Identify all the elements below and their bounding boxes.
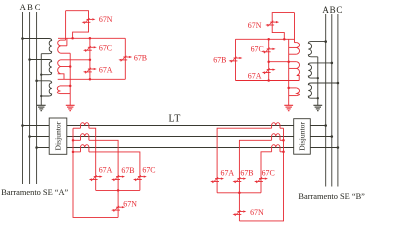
wire common rail (lower left) [73, 128, 118, 217]
wire CT primary common to ground (right) [317, 57, 319, 106]
junction dots upper-left group [69, 37, 91, 87]
junction dots lower-left group [72, 139, 120, 192]
relay 67B (upper left) [118, 56, 132, 62]
wire S2 terminal bottom [58, 74, 64, 80]
CT primary T5 phase B (right) [308, 63, 332, 78]
ground right secondaries [284, 105, 293, 110]
relay 67N (upper left) [82, 18, 96, 24]
relay 67B (upper right) [229, 57, 243, 63]
svg-text:Barramento SE “A”: Barramento SE “A” [1, 188, 68, 197]
wire phase A left bus [22, 12, 24, 184]
line CT phase C (left) [81, 145, 89, 152]
svg-text:67B: 67B [134, 54, 147, 63]
svg-text:Barramento SE “B”: Barramento SE “B” [298, 192, 365, 201]
svg-text:67C: 67C [99, 43, 112, 52]
wire collector (lower left) [96, 189, 140, 191]
CT secondary winding S2 (left) [58, 60, 61, 74]
wire line CT A right lead (right group) [280, 127, 284, 129]
svg-text:67C: 67C [262, 168, 275, 177]
wire S4 terminal mid [289, 46, 297, 48]
wire S1 terminal bottom [60, 52, 70, 54]
line CT phase B (right) [272, 134, 280, 141]
riser to 67N loop (left) [65, 11, 67, 40]
relay 67A (lower right) [210, 177, 224, 183]
svg-text:B: B [330, 5, 336, 15]
relay 67A (upper right) [262, 68, 276, 74]
wire 67N branch (lower right) [238, 193, 240, 221]
breaker box Disjuntor right [294, 119, 311, 155]
svg-text:C: C [336, 5, 342, 15]
wire line CT A left lead [73, 127, 81, 129]
wire main secondary bus (left) [58, 37, 125, 39]
node labels A B C (left bus) [20, 2, 41, 12]
junction dots LT taps left [21, 124, 38, 149]
relay 67C (lower left) [133, 175, 147, 181]
line CT phase A (left) [81, 123, 89, 129]
wire line CT B right lead (right group) [280, 139, 284, 141]
wire S5 terminal mid [289, 67, 297, 69]
wire line CT A left lead to 67A (right group) [217, 128, 272, 193]
wire S6 terminal bottom [289, 95, 297, 97]
wire S4 terminal bottom [289, 53, 297, 55]
wire line CT C right lead to 67C [89, 152, 140, 191]
CT secondary winding S3 (left) [57, 86, 60, 94]
wire CT primary common to ground (left) [40, 54, 42, 106]
svg-text:Disjuntor: Disjuntor [298, 122, 307, 151]
svg-text:A: A [322, 5, 329, 15]
line CT phase B (left) [81, 134, 89, 141]
riser to 67N loop (right) [294, 13, 296, 43]
ground right CT bank [313, 105, 322, 110]
ground left CT bank [37, 105, 46, 110]
wire 67N branch (lower left) [117, 190, 119, 217]
wire relay column 67C/67A (right) [268, 39, 270, 80]
relay 67C (upper right) [262, 48, 276, 54]
svg-text:67B: 67B [240, 168, 253, 177]
riser common to ground (left red) [69, 53, 71, 105]
relay 67N (lower right) [233, 210, 247, 216]
CT secondary winding S4 (right) [297, 43, 300, 55]
CT primary T2 phase B (left) [30, 60, 52, 75]
CT secondary winding S6 (right) [297, 88, 300, 96]
svg-text:B: B [27, 2, 33, 12]
relay 67N (upper right) [265, 21, 279, 27]
svg-text:67A: 67A [221, 168, 235, 177]
svg-text:Disjuntor: Disjuntor [54, 121, 63, 150]
junction dots upper-right group [267, 38, 290, 89]
junction dots LT taps right [324, 124, 339, 149]
wire secondary return bottom (right) [236, 80, 300, 82]
svg-text:67C: 67C [142, 165, 155, 174]
wire line CT A right lead to 67A [89, 128, 96, 190]
wire S6 terminal top [289, 87, 297, 89]
svg-text:67N: 67N [248, 21, 262, 30]
riser short (left) [66, 38, 68, 46]
riser common to ground (right red) [288, 39, 290, 105]
wire phase C right bus [337, 14, 339, 187]
junction dots CT taps left [21, 37, 38, 82]
relay 67C (lower right) [254, 177, 268, 183]
svg-text:LT: LT [169, 114, 181, 125]
svg-text:67N: 67N [123, 199, 137, 208]
relay 67A (upper left) [83, 68, 97, 74]
svg-text:A: A [20, 2, 27, 12]
wire phase C left bus [36, 12, 38, 184]
wire S1 terminal top [60, 39, 65, 41]
relay 67B (lower left) [111, 175, 125, 181]
wire phase A right bus [325, 14, 327, 187]
wire S1 terminal mid [60, 45, 67, 47]
wire S2 terminal top to relay column [60, 59, 90, 61]
svg-text:67N: 67N [250, 208, 264, 217]
transmission line LT phase A [23, 125, 326, 127]
wire secondary return bottom (left) [58, 78, 126, 80]
CT primary T4 phase A (right) [308, 42, 325, 57]
junction dots CT exits (left) [40, 74, 42, 98]
CT secondary winding S5 (right) [297, 62, 300, 76]
transmission line LT phase B [30, 136, 332, 138]
junction dots lower-right group [238, 139, 285, 194]
wire 67B branch (left) [124, 38, 126, 79]
svg-text:67B: 67B [213, 56, 226, 65]
wire 67N loop top (left) [66, 11, 89, 20]
wire line CT B left lead to 67B (right group) [239, 140, 271, 193]
relay 67N (lower left) [111, 206, 125, 212]
wire S2 terminal mid [60, 66, 70, 68]
wire S5 terminal top to relay column [269, 61, 297, 63]
wire line CT C left lead [73, 151, 81, 153]
junction dots CT exits (right) [317, 77, 319, 99]
wire 67N loop return (left) [73, 19, 89, 38]
svg-text:67N: 67N [99, 15, 113, 24]
wire line CT B left lead [73, 139, 81, 141]
wire 67N loop return (right) [272, 22, 284, 39]
wire 67N loop top (right) [272, 13, 294, 23]
svg-text:67B: 67B [121, 166, 134, 175]
wire line CT C left lead to 67C (right group) [261, 152, 272, 193]
CT primary T6 phase C (right) [308, 83, 338, 98]
wire S3 terminal top [60, 85, 70, 87]
line CT phase A (right) [272, 123, 280, 129]
svg-text:67A: 67A [99, 65, 113, 74]
breaker box Disjuntor left [49, 118, 67, 154]
CT primary T1 phase A (left) [23, 39, 52, 54]
node labels A B C (right bus) [322, 5, 342, 15]
svg-text:67C: 67C [251, 45, 264, 54]
wire line CT B right lead to 67B [89, 140, 118, 190]
CT secondary winding S1 (left) [58, 40, 61, 53]
wire main secondary bus (right) [236, 38, 295, 40]
svg-text:67A: 67A [248, 71, 262, 80]
wire relay column 67C/67A (left) [89, 38, 91, 79]
wire collector (lower right) [217, 192, 261, 194]
line CT phase C (right) [272, 145, 280, 152]
transmission line LT phase C [37, 147, 338, 149]
wire S3 terminal bottom [60, 93, 70, 95]
ground left secondaries [66, 105, 75, 110]
wire S5 terminal bottom [297, 76, 299, 81]
CT primary T3 phase C (left) [37, 81, 52, 96]
relay 67A (lower left) [89, 175, 103, 181]
wire 67B branch (right) [235, 39, 237, 80]
wire common rail (lower right) [239, 128, 283, 221]
svg-text:67A: 67A [99, 165, 113, 174]
wire phase B left bus [29, 12, 31, 184]
wire line CT C right lead (right group) [280, 151, 284, 153]
relay 67C (upper left) [83, 46, 97, 52]
wire S4 terminal top [295, 42, 297, 44]
junction dots CT taps right [324, 40, 339, 84]
wire phase B right bus [331, 14, 333, 187]
relay 67B (lower right) [233, 177, 247, 183]
svg-text:C: C [35, 2, 41, 12]
